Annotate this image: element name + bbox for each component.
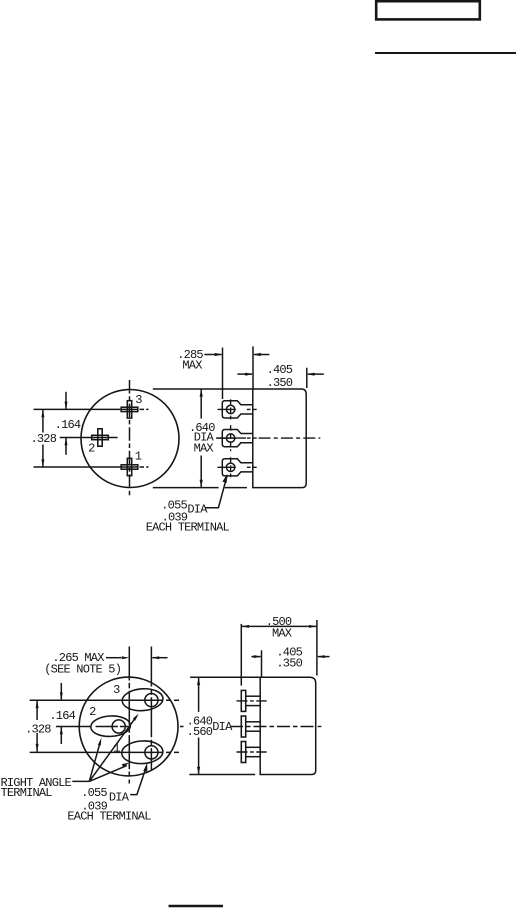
svg-text:TERMINAL: TERMINAL bbox=[1, 786, 53, 800]
svg-text:DIA: DIA bbox=[212, 720, 233, 734]
svg-text:3: 3 bbox=[135, 393, 142, 407]
svg-text:1: 1 bbox=[135, 450, 142, 464]
svg-text:2: 2 bbox=[89, 705, 96, 719]
svg-text:.328: .328 bbox=[25, 722, 51, 736]
svg-text:3: 3 bbox=[113, 683, 120, 697]
svg-text:.350: .350 bbox=[267, 376, 293, 390]
svg-text:.164: .164 bbox=[55, 418, 81, 432]
svg-text:.350: .350 bbox=[276, 657, 302, 671]
svg-text:EACH TERMINAL: EACH TERMINAL bbox=[67, 810, 151, 824]
svg-text:MAX: MAX bbox=[272, 626, 292, 640]
svg-text:DIA: DIA bbox=[187, 503, 208, 517]
svg-text:MAX: MAX bbox=[194, 442, 214, 456]
svg-text:MAX: MAX bbox=[182, 359, 202, 373]
svg-text:.164: .164 bbox=[49, 709, 75, 723]
svg-text:EACH TERMINAL: EACH TERMINAL bbox=[146, 520, 230, 534]
svg-text:.055: .055 bbox=[81, 786, 107, 800]
svg-text:2: 2 bbox=[88, 442, 95, 456]
svg-text:.560: .560 bbox=[187, 725, 213, 739]
svg-text:.328: .328 bbox=[30, 432, 56, 446]
svg-text:(SEE NOTE 5): (SEE NOTE 5) bbox=[44, 663, 121, 677]
svg-text:DIA: DIA bbox=[109, 791, 130, 805]
